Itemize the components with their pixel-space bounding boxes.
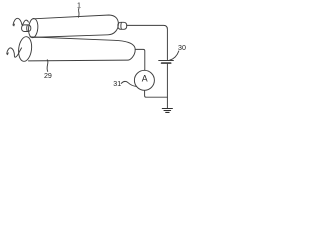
leader line for label 1	[77, 8, 80, 17]
wire from roller 29 to ammeter	[135, 49, 145, 70]
wire from ammeter to ground bus	[145, 90, 168, 97]
roller 29 left end-cap ellipse	[17, 36, 33, 62]
wire from roller 1 to vertical bus	[127, 25, 168, 59]
svg-text:31: 31	[113, 80, 121, 88]
ammeter U31 circle	[134, 70, 154, 90]
roller 1 left shaft stub	[22, 25, 31, 32]
leader line for label 31	[121, 81, 136, 86]
power source 30: short thick plate	[162, 62, 171, 64]
roller 1 left end-cap ellipse	[28, 18, 39, 38]
leader line for label 30	[170, 51, 179, 60]
leader line for label 29	[46, 60, 49, 72]
wire from power source to ground	[166, 64, 168, 108]
roller 1 body	[34, 15, 119, 37]
svg-text:30: 30	[178, 44, 186, 52]
ground symbol	[162, 109, 172, 113]
svg-text:29: 29	[44, 72, 52, 80]
rotation arrow on roller 29	[7, 48, 22, 57]
roller 29 body	[29, 37, 136, 61]
power source 30: long plate	[159, 60, 174, 62]
roller 1 right shaft stub	[118, 22, 127, 29]
rotation arrow on roller 1	[13, 18, 29, 26]
svg-text:A: A	[142, 73, 148, 83]
